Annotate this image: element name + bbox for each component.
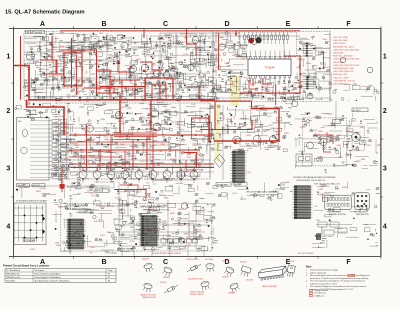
svg-text:PIN/FREE SELECT: PIN/FREE SELECT <box>327 212 341 214</box>
circuitry detail row3 right <box>312 182 380 248</box>
label box servo <box>17 184 30 188</box>
red trace v2 <box>186 29 188 44</box>
board outline motor (dashed) <box>348 126 365 151</box>
transistor Q25 <box>307 142 314 149</box>
circuitry detail row2 left <box>51 102 214 181</box>
svg-text:2SD880: 2SD880 <box>222 261 229 263</box>
transistor Q9 <box>251 39 257 45</box>
red box ta7062 <box>192 123 212 140</box>
grid tick left <box>11 196 13 198</box>
svg-text:TXX-C804: TXX-C804 <box>6 280 15 282</box>
package 2SC945 drawing <box>162 266 173 277</box>
transistor Q14 <box>87 125 94 132</box>
table row 1 <box>6 273 110 276</box>
svg-text:D: D <box>224 21 229 28</box>
red comb v4 <box>159 85 161 100</box>
svg-text:3: 3 <box>6 166 10 173</box>
red power rail second <box>27 100 65 135</box>
svg-text:C: C <box>163 21 168 28</box>
wiring mesh row2 right <box>294 118 378 170</box>
svg-text:4: 4 <box>383 224 387 231</box>
package 2SD880 drawing <box>223 266 235 278</box>
bridge rectifier D11 diamond <box>214 154 225 168</box>
red trace h93b <box>84 88 114 93</box>
grid tick right <box>381 196 383 198</box>
red loop D2 left <box>215 101 252 109</box>
red comb v1 <box>109 70 111 100</box>
red arrow +B <box>235 32 237 35</box>
red dot psu <box>323 67 325 69</box>
red pair v76 <box>76 55 78 95</box>
generator M1 sine mark <box>28 55 34 57</box>
circuitry detail right col row1 <box>330 83 379 101</box>
power transistor Q45 with red emitter <box>149 171 157 184</box>
transistor Q5 <box>163 72 169 78</box>
board outline top-middle (dashed) <box>216 31 330 102</box>
transistor Q12 <box>151 110 158 117</box>
red trans blob q2 <box>130 66 132 68</box>
svg-text:F: F <box>346 21 351 28</box>
grid tick bottom <box>195 256 197 258</box>
transistor Q22 <box>254 135 261 142</box>
svg-text:2SC1815 2SD438: 2SC1815 2SD438 <box>298 253 313 255</box>
red junction dots <box>28 30 301 168</box>
red trace row1 right <box>299 55 301 93</box>
svg-text:Description: Description <box>35 269 44 272</box>
svg-text:TNX-005n (or S): TNX-005n (or S) <box>6 276 20 279</box>
svg-text:2SD637: 2SD637 <box>240 261 247 263</box>
highlight band yellow vertical <box>231 76 240 106</box>
grid tick bottom <box>317 256 319 258</box>
grid tick top <box>73 26 75 28</box>
circuitry detail row2 right <box>295 113 382 173</box>
grid tick right <box>381 82 383 84</box>
red marker box row3 <box>60 184 65 188</box>
connector P1 outline (bottom right) <box>325 195 351 209</box>
red trace v4 <box>275 84 277 105</box>
red psu inner <box>326 132 328 142</box>
grid tick top <box>317 26 319 28</box>
servo circuitry detail A1 <box>24 32 135 103</box>
red inter-row drop x151 <box>150 100 152 130</box>
svg-text:Servo Control P.C. Board Ass'y: Servo Control P.C. Board Ass'y <box>35 273 61 276</box>
red drop d4 <box>99 150 101 170</box>
label box power trans 1 <box>216 183 231 187</box>
svg-text:2SB561: 2SB561 <box>163 277 170 279</box>
red trace v96 <box>97 50 119 93</box>
red drop d8 <box>61 168 63 185</box>
package small ind <box>163 284 178 295</box>
red seg row2 right2 <box>186 160 197 170</box>
frame left rule <box>13 29 15 257</box>
package TO92 D <box>206 263 214 272</box>
red trace q-chain2 <box>118 60 130 72</box>
transistor Q11 <box>115 111 122 118</box>
power transistor Q43 with red emitter <box>121 171 129 184</box>
power transistor Q41 with red emitter <box>93 171 101 184</box>
red trans blob q3 <box>143 70 145 72</box>
motor M2 inner mark <box>355 136 357 138</box>
matrix pin labels <box>14 208 16 238</box>
grid tick bottom <box>134 256 136 258</box>
red vert row3 <box>61 182 63 192</box>
notes line 2 <box>306 271 327 274</box>
notes line 1 <box>306 269 339 272</box>
red row1 h85 <box>100 86 145 88</box>
transistor Q23 <box>269 136 277 144</box>
motor M2 <box>352 133 361 142</box>
grid tick top <box>134 26 136 28</box>
red comb v2 <box>121 80 123 100</box>
svg-text:S4-1: S4-1 <box>18 121 22 123</box>
red rail row2 fan4 <box>70 167 214 169</box>
matrix board outline <box>14 203 46 245</box>
red drop d2 <box>146 137 148 171</box>
connector block CN3 (right) <box>292 186 312 219</box>
red trace B2 inner <box>152 85 166 100</box>
red trace psu <box>323 140 331 152</box>
label box right1 <box>352 108 368 112</box>
red row1 left bits <box>40 60 56 74</box>
red top drop x144 <box>143 29 145 38</box>
red comb v5 <box>172 78 174 100</box>
svg-text:R304,R305 220→1670: R304,R305 220→1670 <box>333 46 354 48</box>
relay sub box <box>296 154 312 166</box>
svg-text:C303 470 100E: C303 470 100E <box>333 40 348 42</box>
notes legend 1 <box>310 289 328 292</box>
svg-text:37: 37 <box>108 277 110 279</box>
grid tick bottom <box>73 256 75 258</box>
svg-text:This is the standard circuit d: This is the standard circuit diagram. Th… <box>310 280 365 283</box>
svg-text:2: 2 <box>6 108 10 115</box>
grid tick bottom <box>380 256 382 258</box>
connector block CN1 (bottom-left) <box>66 219 86 249</box>
svg-text:C305 33 16LV: C305 33 16LV <box>333 43 346 45</box>
frame right rule <box>380 29 382 257</box>
svg-text:: voltage marked: : voltage marked <box>314 289 328 292</box>
transistor Q21 <box>233 136 241 144</box>
svg-text:2SC1096: 2SC1096 <box>205 259 213 261</box>
package TO126 drawing <box>286 265 295 278</box>
power transistor Q44 with red emitter <box>135 171 143 184</box>
svg-text:(protective). 4 : Service to u: (protective). 4 : Service to use the des… <box>310 277 369 280</box>
red trace h-mid <box>240 92 300 94</box>
svg-text:2SC458: 2SC458 <box>246 279 253 281</box>
psu inner label box <box>333 119 341 123</box>
red bus cluster <box>114 133 157 140</box>
board outline mid (dashed) <box>56 103 210 179</box>
svg-text:2SC1318: 2SC1318 <box>286 261 294 263</box>
transistor Q4 <box>154 70 161 77</box>
red power rail main <box>14 66 215 100</box>
svg-text:LN28RP: LN28RP <box>228 292 236 294</box>
svg-text:1S1555: 1S1555 <box>160 282 167 284</box>
grid tick right <box>381 138 383 140</box>
circuitry detail row3 amp top <box>115 181 218 202</box>
svg-text:F: F <box>346 259 351 266</box>
package TO92 F labels <box>188 278 204 295</box>
svg-text:3: 3 <box>383 166 387 173</box>
red trans blob q23 <box>271 142 273 144</box>
notes line 3 <box>306 274 370 277</box>
svg-text:2SD655: 2SD655 <box>222 276 229 278</box>
svg-text:D307,D308: D307,D308 <box>333 62 344 64</box>
highlight band yellow lower <box>215 104 221 162</box>
svg-text:IC302: IC302 <box>240 59 246 61</box>
svg-text:C340,R348 33→47K 1%: C340,R348 33→47K 1% <box>333 80 355 82</box>
label box power trans 2 <box>234 183 247 187</box>
svg-text:38: 38 <box>108 280 110 282</box>
switch contact matrix <box>30 120 67 179</box>
package DIP16 drawing <box>258 266 287 280</box>
svg-text:1S2473 1SS53: 1S2473 1SS53 <box>186 259 199 261</box>
svg-text:C351,C353 (R341 6.8): C351,C353 (R341 6.8) <box>333 71 353 73</box>
svg-text:Page: Page <box>108 270 112 272</box>
transistor Q8 <box>219 44 225 50</box>
circuitry detail row3 left <box>52 203 121 254</box>
red loop D2 bottom <box>215 101 252 130</box>
svg-text:AC INLET: AC INLET <box>353 109 361 112</box>
bus wiring <box>18 31 336 250</box>
red trace to power row <box>83 168 194 171</box>
red comb v3 <box>134 80 136 100</box>
red trace row1 right2 <box>284 55 300 57</box>
board outline ic sub (dashed) <box>239 32 297 57</box>
hatched shield block <box>316 234 320 240</box>
svg-text:VR301: VR301 <box>262 87 269 89</box>
svg-text:15. QL-A7 Schematic Diagram: 15. QL-A7 Schematic Diagram <box>5 10 85 16</box>
svg-text:C346,C347,C348,C351,C352: C346,C347,C348,C351,C352 <box>333 65 360 67</box>
board outline servo pcb (dashed) <box>24 31 213 100</box>
svg-text:R341,R343 8.2K→10K: R341,R343 8.2K→10K <box>333 68 354 70</box>
svg-text:R346 100→220: R346 100→220 <box>333 74 348 76</box>
red drop wires bottom <box>122 246 204 256</box>
red drop d1 <box>132 140 134 171</box>
notes legend 2 <box>310 292 327 295</box>
transistor Q6 <box>192 37 199 44</box>
notes inline red mark <box>348 274 355 276</box>
red drop d3 <box>86 125 88 170</box>
svg-text:The indicated voltages are mea: The indicated voltages are measured by a… <box>310 285 366 288</box>
svg-text:D301,D303: D301,D303 <box>333 53 344 55</box>
notes line 6 <box>310 282 338 285</box>
power transistor Q46 with red emitter <box>163 171 171 184</box>
svg-text:Note: Note <box>306 265 312 268</box>
notes line 4 <box>310 277 369 280</box>
logic wiring mesh C3 <box>296 45 330 100</box>
red seg left zig <box>52 36 64 74</box>
connector block CN5 (row2-3 middle) <box>230 151 246 182</box>
transistor Q16 <box>367 67 373 73</box>
red thick v right <box>208 115 210 143</box>
red rail row2 fan3 <box>69 163 214 165</box>
red h into box <box>192 118 210 123</box>
svg-text:When replacing the parts in th: When replacing the parts in the protecti… <box>310 274 370 277</box>
power transistor Q47 with red emitter <box>177 171 185 184</box>
board outline psu (dashed) <box>302 118 346 166</box>
svg-text:HA1457 TA7318P: HA1457 TA7318P <box>262 285 278 288</box>
label box trx <box>95 189 109 193</box>
generator M1 <box>26 52 34 60</box>
op-amp IC U1 body with pins <box>248 51 291 85</box>
red trace v3 <box>218 33 220 70</box>
switch wafer ellipse <box>23 129 28 137</box>
transistor Q2 <box>129 65 136 72</box>
speaker terminal row <box>161 239 198 243</box>
transistor Q3 <box>141 64 149 72</box>
svg-text:2SA933 2SC945: 2SA933 2SC945 <box>142 296 156 299</box>
circuitry detail row2 left edge <box>15 102 56 120</box>
power transistor Q48 with red emitter <box>190 171 198 184</box>
connector P2 outline (bottom right) <box>355 193 369 210</box>
switch rotor circle <box>21 147 27 153</box>
package TO220 drawing <box>240 266 251 277</box>
resistor array above U1 <box>244 32 289 44</box>
svg-text:: for 20kΩ each: : for 20kΩ each <box>314 292 327 295</box>
svg-text:indicate printed (tracks) of s: indicate printed (tracks) of supply. <box>310 269 339 272</box>
svg-text:2SC458 2SC1345: 2SC458 2SC1345 <box>188 278 203 280</box>
wiring mesh row2 mid <box>216 107 290 150</box>
notes legend 3 <box>310 294 326 297</box>
table row 2 <box>6 276 110 279</box>
wiring mesh row3 left <box>56 182 114 254</box>
svg-text:C361 R348 (D.C): C361 R348 (D.C) <box>333 84 349 86</box>
red drop d7 <box>152 133 154 170</box>
edge connector J3 <box>303 76 315 89</box>
capacitor C7 (dark red) <box>249 38 254 43</box>
svg-text:TO Tuner: TO Tuner <box>96 190 104 193</box>
svg-text:2SD880 2SD880 2SC945 2SA7: 2SD880 2SD880 2SC945 2SA733 <box>152 252 181 255</box>
circuitry detail row3 top strip <box>218 182 292 200</box>
power transistor Q42 with red emitter <box>107 171 115 184</box>
notes line 7 <box>306 285 366 288</box>
red branch C <box>214 109 279 142</box>
notes line 5 <box>306 280 365 283</box>
svg-text:4: 4 <box>6 224 10 231</box>
package TO92 E label <box>140 293 156 298</box>
svg-text:1: 1 <box>383 54 387 61</box>
svg-text:Printed Circuit Board Ass'y Lo: Printed Circuit Board Ass'y Locations <box>3 264 50 268</box>
package TO92 F drawing <box>200 281 210 291</box>
logic circuitry detail C2 <box>247 78 304 104</box>
logic circuitry detail C3 <box>295 35 332 101</box>
svg-text:B: B <box>101 259 106 266</box>
transistor Q17 <box>292 101 298 107</box>
svg-text:subject to change without noti: subject to change without notice. <box>310 282 338 285</box>
switch block outline <box>17 118 50 181</box>
red trace h1 <box>59 49 97 51</box>
connector block CN2 (bottom-middle) <box>139 216 159 247</box>
svg-text:IC301: IC301 <box>128 89 134 91</box>
transistor Q31 <box>181 203 187 209</box>
red trace vertical left edge <box>20 36 22 100</box>
red trace B2 box <box>145 78 173 100</box>
frame top rule <box>9 28 381 30</box>
svg-text:A: A <box>40 21 45 28</box>
transistor Q10 <box>307 93 313 99</box>
red seg bottomright row2 <box>184 153 197 168</box>
frame bottom rule <box>9 255 381 257</box>
transistor Q24 <box>320 138 327 145</box>
red jumper top <box>235 31 237 36</box>
servo wiring mesh A1 <box>24 34 126 101</box>
svg-text:TWX-008 (or S): TWX-008 (or S) <box>6 273 20 276</box>
svg-text:2SD467 2SD571: 2SD467 2SD571 <box>190 294 204 296</box>
red trace ic drop2 <box>263 78 272 84</box>
circuitry detail row2 mid <box>217 105 293 153</box>
svg-text:HC302: HC302 <box>84 38 91 40</box>
amp board outline (dashed) <box>61 204 212 252</box>
red bits amp top2 <box>120 185 138 193</box>
red bits amp top <box>114 190 146 200</box>
red trans blob q21 <box>234 142 236 144</box>
red trace ic drop1 <box>252 78 254 86</box>
red rail row2 fan1 <box>69 134 214 136</box>
circuitry detail row3 left top <box>16 182 111 205</box>
grid tick bottom <box>257 256 259 258</box>
red trace q-chain <box>97 70 140 80</box>
package TO92 E drawing <box>142 282 152 292</box>
wiring mesh row3 amp <box>114 200 212 250</box>
grid tick bottom <box>13 256 15 258</box>
transistor Q15 <box>340 57 346 63</box>
red trans blob q13 <box>154 129 156 131</box>
red trace near ic <box>249 80 258 89</box>
red rail row2 fan2 <box>69 149 200 151</box>
package LED drawing <box>229 282 240 293</box>
red trace q-chain3 <box>140 62 163 70</box>
svg-text:: for AM area: : for AM area <box>314 294 326 297</box>
grid tick top <box>257 26 259 28</box>
red trace top rail <box>60 30 300 32</box>
svg-text:indicate signal path.: indicate signal path. <box>310 271 327 274</box>
transistor Q7 <box>188 64 194 70</box>
svg-text:P.C. Board Ass'y: P.C. Board Ass'y <box>6 269 20 272</box>
package diode drawing <box>186 263 202 273</box>
svg-text:TA7318P: TA7318P <box>265 67 275 70</box>
red right psu path <box>313 135 333 144</box>
grid tick top <box>380 26 382 28</box>
svg-text:E: E <box>286 21 291 28</box>
red comb v6 <box>198 85 200 100</box>
svg-text:2SA733: 2SA733 <box>142 258 149 261</box>
svg-text:C: C <box>163 259 168 266</box>
circuitry detail row3 amp <box>114 200 219 252</box>
svg-text:C355 470→100 F: C355 470→100 F <box>333 77 350 79</box>
red inter-row drop x120 <box>119 95 121 133</box>
servo circuitry detail B1 <box>130 34 221 103</box>
svg-text:(FILLED FOR USA & CANADA): (FILLED FOR USA & CANADA) <box>247 191 278 194</box>
package 2SA733 drawing <box>143 262 154 273</box>
matrix label box <box>23 238 34 241</box>
svg-text:C101 6.8→220P: C101 6.8→220P <box>333 37 348 39</box>
capacitor C8 (dark) <box>256 37 262 43</box>
grid tick left <box>11 138 13 140</box>
red stub D2 a <box>200 100 215 102</box>
red rail row2 fan2b <box>69 141 170 143</box>
svg-text:Power Supply P.C. Board Ass'y: Power Supply P.C. Board Ass'y <box>35 276 61 279</box>
red trace v2b <box>187 44 197 56</box>
table row 0 <box>6 269 112 272</box>
logic circuitry detail C1 <box>216 32 250 101</box>
red trace v1 <box>71 38 73 88</box>
table row 3 <box>6 279 110 282</box>
logic wiring mesh C1 <box>216 33 248 98</box>
svg-text:2: 2 <box>383 108 387 115</box>
svg-text:CELLED FOR FACEA &OTHER COUNTR: CELLED FOR FACEA &OTHER COUNTRIES <box>293 176 336 179</box>
svg-text:1: 1 <box>6 54 10 61</box>
notes line 8 <box>310 288 354 291</box>
